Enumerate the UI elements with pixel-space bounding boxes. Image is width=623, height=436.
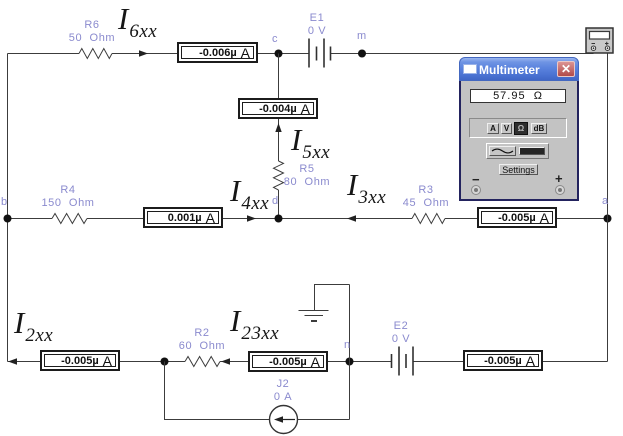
dialog waveform panel bbox=[486, 143, 549, 159]
dialog mode panel bbox=[469, 118, 567, 138]
dialog button V bbox=[501, 123, 512, 134]
label R6 value bbox=[69, 19, 115, 45]
node n bbox=[346, 358, 354, 366]
multimeter XMM1 icon bbox=[586, 28, 613, 53]
wire top rail bbox=[8, 53, 594, 55]
label node b bbox=[1, 196, 8, 209]
wire bottom rail bbox=[8, 361, 608, 363]
dialog button dB bbox=[531, 123, 547, 134]
wire right rail bbox=[607, 54, 609, 362]
dialog plus terminal bbox=[555, 185, 565, 195]
dialog close button bbox=[557, 61, 575, 77]
label E2 value bbox=[392, 320, 410, 346]
dialog plus label bbox=[555, 171, 563, 186]
node m bbox=[358, 50, 366, 58]
label node n bbox=[344, 339, 351, 352]
current source J2 bbox=[270, 406, 298, 434]
node d bbox=[275, 215, 283, 223]
dialog minus label bbox=[472, 172, 480, 187]
arrow on top rail (I6 direction) bbox=[139, 50, 148, 56]
ammeter A2 -0.004uA bbox=[238, 98, 318, 119]
dialog display 57.95 Ohm bbox=[470, 89, 566, 103]
label E1 value bbox=[308, 12, 326, 38]
current label I5xx bbox=[291, 122, 330, 158]
label R3 value bbox=[403, 184, 449, 210]
arrow mid-rail right (I4 direction) bbox=[247, 215, 256, 221]
label node c bbox=[272, 33, 278, 46]
ammeter A3 0.001uA bbox=[143, 207, 223, 228]
ammeter A6 -0.005uA bbox=[248, 351, 328, 372]
dialog button A bbox=[487, 123, 499, 134]
wire ground branch bbox=[315, 285, 350, 420]
current label I23xx bbox=[230, 303, 279, 339]
ammeter A7 -0.005uA bbox=[463, 350, 543, 371]
label J2 value bbox=[274, 378, 292, 404]
wire R5 branch vertical bbox=[278, 54, 280, 219]
wire J2 loop bbox=[165, 362, 350, 420]
battery E2 bbox=[392, 347, 414, 376]
arrow bottom-left corner (I2 direction) bbox=[8, 358, 17, 364]
label node m bbox=[357, 30, 367, 43]
ammeter A1 -0.006uA bbox=[177, 42, 258, 63]
ammeter A4 -0.005uA bbox=[477, 207, 557, 228]
dialog title text bbox=[479, 63, 540, 77]
current label I6xx bbox=[118, 1, 157, 37]
current label I3xx bbox=[347, 167, 386, 203]
current label I4xx bbox=[230, 173, 269, 209]
dialog title bar bbox=[459, 57, 579, 81]
battery E1 bbox=[309, 39, 331, 68]
wire middle rail bbox=[8, 218, 608, 220]
resistor R3 bbox=[412, 214, 445, 224]
resistor R5 bbox=[274, 161, 284, 190]
arrow up on R5 branch (I5 direction) bbox=[275, 123, 281, 132]
wire left rail b-corner bbox=[7, 54, 9, 362]
label node d bbox=[272, 195, 279, 208]
current label I2xx bbox=[14, 305, 53, 341]
multimeter dialog window bbox=[459, 57, 579, 201]
dialog settings button bbox=[499, 164, 538, 175]
node junction J2-loop left bbox=[161, 358, 169, 366]
resistor R4 bbox=[52, 214, 87, 224]
node a bbox=[604, 215, 612, 223]
arrow inside J2 bbox=[274, 416, 295, 422]
label R2 value bbox=[179, 327, 225, 353]
label node a bbox=[602, 195, 609, 208]
dialog icon bbox=[463, 64, 477, 74]
dialog dark display button bbox=[519, 147, 545, 155]
dialog minus terminal bbox=[471, 185, 481, 195]
dialog sine button bbox=[489, 146, 516, 156]
dialog body bbox=[459, 81, 579, 201]
node b bbox=[4, 215, 12, 223]
label R5 value bbox=[284, 163, 330, 189]
resistor R2 bbox=[185, 357, 220, 367]
ground bbox=[299, 311, 329, 322]
ammeter A5 -0.005uA bbox=[40, 350, 120, 371]
label R4 value bbox=[41, 184, 94, 210]
arrow into R2 (I23 direction) bbox=[221, 358, 230, 364]
arrow mid-rail left (I3 direction) bbox=[347, 215, 356, 221]
resistor R6 bbox=[79, 49, 112, 59]
node c bbox=[275, 50, 283, 58]
dialog button Ohm pressed bbox=[514, 122, 528, 135]
